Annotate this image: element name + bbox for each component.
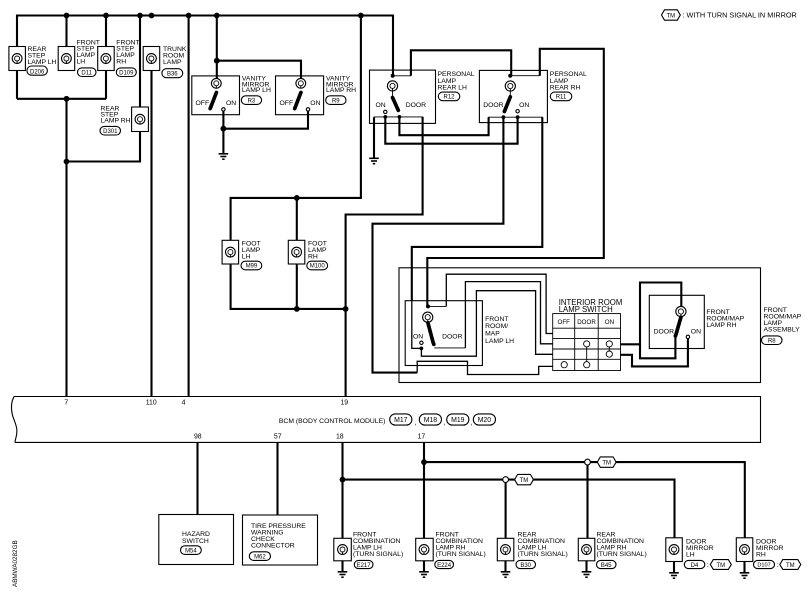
ground E217 — [338, 572, 348, 577]
front room/map lamp assembly R8 box — [399, 268, 761, 383]
wire B45 drop — [586, 462, 588, 538]
svg-text:ON: ON — [519, 102, 529, 109]
node map LH lamp top — [426, 304, 430, 308]
svg-text:(TURN SIGNAL): (TURN SIGNAL) — [597, 551, 647, 558]
svg-text:FRONT: FRONT — [485, 316, 508, 323]
svg-text:LH: LH — [686, 552, 695, 559]
terminal ON R11 — [516, 110, 519, 113]
svg-text:ON: ON — [413, 333, 423, 340]
shelf R12 — [374, 117, 423, 124]
wire B36 to BCM pin 110 — [150, 71, 152, 397]
node R12 DOOR contact — [398, 115, 402, 119]
rear combination lamp LH B30 — [497, 532, 567, 569]
svg-text:LH: LH — [77, 59, 86, 66]
tire pressure warning check connector M62 — [243, 515, 318, 565]
wire D R11 to front room lamp feed — [427, 49, 604, 307]
wire E217 ground stem — [341, 561, 343, 572]
svg-text:ABMWA0282GB: ABMWA0282GB — [12, 540, 19, 587]
node foot feed RH — [294, 195, 300, 201]
svg-text:RH: RH — [756, 552, 766, 559]
front combination lamp RH E224 — [416, 532, 486, 569]
svg-text:REAR RH: REAR RH — [550, 85, 581, 92]
node R11 DOOR contact — [502, 115, 506, 119]
svg-text:(TURN SIGNAL): (TURN SIGNAL) — [436, 551, 486, 558]
svg-text:DOOR: DOOR — [577, 319, 596, 326]
wire D109 bottom — [105, 71, 107, 99]
svg-text:ON: ON — [376, 102, 386, 109]
wire switch row3 to map RH ON — [621, 339, 688, 367]
node step bus — [64, 96, 70, 102]
svg-text:LAMP LH: LAMP LH — [485, 338, 514, 345]
terminal ON R9 — [306, 108, 309, 111]
wire W2 map LH DOOR shelf to switch row2 — [465, 282, 552, 348]
svg-text:RH: RH — [116, 59, 126, 66]
svg-text:110: 110 — [146, 399, 157, 406]
foot lamp LH M99 — [222, 240, 262, 270]
svg-text:LAMP RH: LAMP RH — [326, 87, 356, 94]
wire to BCM pin 7 — [65, 99, 67, 397]
svg-text:R11: R11 — [556, 95, 567, 101]
wire B45 ground stem — [585, 561, 587, 572]
wire bus to BCM pin 4 — [188, 16, 190, 397]
svg-text:(TURN SIGNAL): (TURN SIGNAL) — [518, 551, 568, 558]
wire top bus — [17, 16, 393, 76]
wire D301 to pin7 branch — [67, 132, 141, 162]
shelf map LH — [434, 347, 465, 349]
svg-text:M19: M19 — [451, 417, 465, 424]
wire R12-ON to R11-ON tie — [385, 117, 517, 144]
svg-text:M100: M100 — [310, 264, 326, 270]
svg-text:ON: ON — [691, 329, 701, 336]
terminal ON R12 — [384, 110, 387, 113]
svg-text:R9: R9 — [332, 98, 340, 104]
wire R12-R11 lamp bridge — [411, 50, 511, 76]
wire switch row2 to map RH lamp feed — [621, 283, 682, 345]
switch lever R9 — [295, 93, 301, 109]
wire R11 lamp notch — [510, 75, 540, 77]
svg-text:4: 4 — [182, 399, 186, 406]
svg-text:D109: D109 — [119, 70, 134, 76]
svg-text:,: , — [415, 420, 417, 427]
svg-text:OFF: OFF — [280, 100, 294, 107]
vanity mirror lamp LH R3 — [192, 76, 271, 115]
svg-text:M54: M54 — [185, 548, 197, 554]
svg-text:REAR LH: REAR LH — [438, 85, 468, 92]
door mirror RH D107 — [736, 538, 801, 570]
svg-text:R12: R12 — [443, 95, 455, 101]
svg-text:D206: D206 — [30, 69, 45, 75]
wire D107 ground stem — [743, 562, 745, 573]
ground D107 — [740, 573, 750, 578]
svg-text:ROOM/: ROOM/ — [485, 323, 508, 330]
wire R12 lamp notch — [393, 75, 411, 77]
wire foot lamp feed — [231, 16, 361, 241]
svg-text:DOOR: DOOR — [483, 102, 503, 109]
svg-text:TM: TM — [520, 478, 529, 484]
svg-text:LAMP RH: LAMP RH — [706, 322, 736, 329]
svg-text:ON: ON — [310, 100, 320, 107]
node vanity feed — [214, 58, 220, 64]
svg-text:TM: TM — [786, 563, 795, 569]
rear combination lamp RH B45 — [578, 532, 646, 569]
svg-text:BCM (BODY CONTROL MODULE): BCM (BODY CONTROL MODULE) — [279, 418, 386, 425]
node R11 lamp top — [508, 74, 512, 78]
svg-text:19: 19 — [340, 399, 348, 406]
svg-text:LH: LH — [242, 253, 251, 260]
node pin18 bus — [340, 477, 346, 483]
svg-text:18: 18 — [336, 433, 344, 440]
svg-text:D4: D4 — [691, 563, 699, 569]
svg-text:D11: D11 — [81, 70, 92, 76]
foot lamp RH M100 — [288, 240, 327, 270]
ground D4 — [669, 573, 679, 578]
wire pin 57 to tire pressure connector — [276, 442, 278, 515]
wire R12 ground stem — [373, 118, 375, 159]
ground E224 — [419, 572, 429, 577]
svg-text:,: , — [443, 420, 445, 427]
door mirror LH D4 — [666, 538, 732, 570]
node bus-B36 — [149, 13, 155, 19]
svg-text:TM: TM — [602, 460, 611, 466]
switch lever R12 — [393, 98, 399, 111]
wire A R12-shelf to BCM pin 19 — [346, 117, 423, 397]
svg-text:57: 57 — [274, 433, 282, 440]
svg-text:MAP: MAP — [485, 331, 500, 338]
svg-text:98: 98 — [194, 433, 202, 440]
wire W3 map LH ON to switch row3 — [421, 291, 552, 357]
node R11 ON contact — [516, 115, 520, 119]
svg-text:E217: E217 — [357, 563, 372, 569]
svg-text:CONNECTOR: CONNECTOR — [251, 543, 295, 550]
wire bus1 — [424, 462, 745, 538]
svg-text:D107: D107 — [757, 563, 770, 569]
trunk room lamp B36 — [143, 46, 187, 78]
terminal ON map RH — [686, 335, 689, 338]
svg-text:OFF: OFF — [196, 100, 210, 107]
wire B30 ground stem — [504, 561, 506, 572]
svg-text:ON: ON — [605, 319, 614, 326]
node bus-D11 — [64, 13, 70, 19]
svg-text:D301: D301 — [103, 129, 118, 135]
wire foot lamp bus — [231, 264, 346, 309]
svg-text:: WITH TURN SIGNAL IN MIRROR: : WITH TURN SIGNAL IN MIRROR — [683, 11, 797, 20]
node bus-vanity — [214, 13, 220, 19]
svg-text:SWITCH: SWITCH — [182, 538, 209, 545]
TM hexagon bus2 — [515, 474, 534, 484]
wire R12-DOOR to R11-shelf tie — [399, 117, 488, 135]
svg-text:,: , — [471, 420, 473, 427]
svg-text:RH: RH — [308, 253, 318, 260]
ground B30 — [501, 572, 511, 577]
switch lever map RH — [676, 317, 681, 334]
wire step bus — [17, 98, 106, 100]
wire foot RH drop — [296, 198, 298, 240]
node R12 lamp top — [391, 74, 395, 78]
svg-text::: : — [707, 562, 709, 569]
interior room lamp switch — [553, 298, 623, 371]
svg-text:(TURN SIGNAL): (TURN SIGNAL) — [353, 551, 403, 558]
wire R3 feed — [216, 16, 218, 79]
wire vanity ON tie — [223, 111, 308, 129]
shelf R11 — [489, 117, 543, 122]
svg-text:TM: TM — [716, 563, 725, 569]
wire E224 ground stem — [423, 561, 425, 572]
node bus1 option split — [585, 459, 591, 465]
front combination lamp LH E217 — [334, 532, 403, 569]
svg-text:LAMP LH: LAMP LH — [28, 59, 57, 66]
node bus-D109 — [103, 13, 109, 19]
rear step lamp RH D301 — [100, 106, 148, 136]
svg-text:DOOR: DOOR — [654, 329, 674, 336]
svg-text:DOOR: DOOR — [442, 333, 462, 340]
svg-text:M18: M18 — [424, 417, 438, 424]
svg-text:ASSEMBLY: ASSEMBLY — [764, 327, 801, 334]
node vanity ground junction — [221, 126, 227, 132]
node pin17 bus — [421, 459, 427, 465]
wire bus2 — [343, 480, 675, 538]
svg-text:R3: R3 — [248, 98, 256, 104]
svg-text:M17: M17 — [394, 417, 408, 424]
switch lever map LH — [428, 323, 433, 343]
svg-text:LAMP LH: LAMP LH — [242, 87, 271, 94]
wire pin 18 to E217 — [341, 442, 343, 538]
TM legend hexagon — [662, 10, 681, 20]
svg-text:B30: B30 — [520, 563, 531, 569]
front room/map lamp LH box — [405, 301, 514, 366]
wire pin 17 to E224 — [423, 442, 425, 538]
ground vanity — [219, 154, 229, 159]
svg-text:TM: TM — [666, 13, 675, 19]
svg-text:B36: B36 — [167, 71, 178, 77]
svg-text:OFF: OFF — [558, 319, 571, 326]
svg-text:M20: M20 — [478, 417, 492, 424]
wire pin 98 to hazard switch — [196, 442, 198, 514]
front step lamp LH D11 — [58, 39, 100, 76]
svg-text:7: 7 — [64, 399, 68, 406]
svg-text::: : — [777, 562, 779, 569]
wire map LH lamp notch — [428, 305, 446, 307]
wire D109 feed — [105, 16, 107, 47]
wire B R11-DOOR to switch row4 — [373, 117, 504, 372]
node foot bus pin19 — [343, 306, 349, 312]
node bus-foot — [358, 13, 364, 19]
wire vanity ground stem — [222, 129, 224, 154]
personal lamp rear RH R11 — [479, 70, 587, 122]
wire foot RH bottom — [296, 264, 298, 309]
wire D301 feed — [139, 16, 141, 108]
wire C R11-shelf to map lamp ON feed — [412, 117, 543, 301]
TM hexagon bus1 — [597, 457, 616, 467]
switch lever R3 — [210, 93, 216, 109]
rear step lamp LH D206 — [9, 46, 57, 75]
svg-text:LAMP: LAMP — [163, 59, 182, 66]
wire map RH DOOR to row2 leg — [640, 336, 675, 358]
wire D11 feed — [65, 16, 67, 47]
personal lamp rear LH R12 — [370, 70, 475, 123]
node R12 ON contact — [383, 115, 387, 119]
node map LH DOOR contact — [432, 342, 436, 346]
hazard switch M54 — [159, 515, 234, 565]
switch lever R11 — [504, 97, 510, 112]
svg-text:E224: E224 — [437, 563, 452, 569]
ground B45 — [582, 572, 592, 577]
wire D4 ground stem — [673, 562, 675, 573]
svg-text:B45: B45 — [601, 563, 612, 569]
front step lamp RH D109 — [98, 39, 140, 76]
node foot bus RH — [294, 306, 300, 312]
wire D206 bottom — [16, 71, 18, 99]
svg-text:LAMP RH: LAMP RH — [101, 117, 131, 124]
ground R12 — [369, 158, 379, 163]
node map RH DOOR contact — [674, 334, 678, 338]
wire B30 drop — [505, 480, 507, 539]
node bus-D301 — [137, 13, 143, 19]
wire vanity RH feed — [217, 61, 301, 79]
svg-text:M62: M62 — [254, 554, 266, 560]
front room/map lamp RH box — [649, 295, 744, 348]
vanity mirror lamp RH R9 — [276, 76, 357, 115]
node bus-pin4 — [186, 13, 192, 19]
node bus2 option split — [503, 477, 509, 483]
svg-text:R8: R8 — [768, 338, 776, 344]
svg-text:ON: ON — [226, 100, 236, 107]
terminal ON map LH — [420, 341, 423, 344]
svg-text:HAZARD: HAZARD — [182, 531, 210, 538]
node map LH ON contact — [420, 347, 424, 351]
node pin7-D301 junction — [64, 159, 70, 165]
wire W1 map LH lamp to switch row1 — [446, 274, 552, 333]
svg-text:LAMP SWITCH: LAMP SWITCH — [559, 305, 613, 314]
terminal ON R3 — [222, 108, 225, 111]
svg-text:DOOR: DOOR — [406, 102, 426, 109]
BCM box — [11, 397, 760, 443]
svg-text:17: 17 — [418, 433, 426, 440]
svg-text:M99: M99 — [246, 264, 258, 270]
